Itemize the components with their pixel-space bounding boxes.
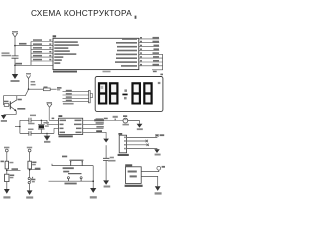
wire rail x106 with C4 — [105, 145, 107, 180]
transistor VT1 — [10, 100, 16, 111]
digit 2 — [109, 82, 119, 104]
wire pin2 nc — [127, 140, 146, 142]
node crystal junction — [41, 120, 42, 121]
GND text — [11, 80, 20, 82]
R4 label — [1, 161, 4, 163]
GND net label — [16, 63, 23, 65]
display text below bus — [63, 103, 74, 105]
display connector bar — [88, 91, 90, 103]
wire base rail — [2, 96, 4, 105]
node loop junction — [19, 126, 20, 127]
wire VCC — [15, 45, 31, 47]
wire base — [9, 104, 11, 106]
no-connect X pin3 — [147, 144, 149, 146]
U1 left pin name texts — [54, 41, 79, 64]
wire to ground B — [29, 184, 31, 191]
switch SB box A — [5, 174, 9, 181]
wire stub B — [30, 169, 41, 171]
display 4-wire bus: VCC CLK DIO GND — [63, 92, 90, 102]
left stub net labels — [33, 39, 51, 60]
wire collector net — [3, 89, 28, 95]
digit 4 — [143, 82, 153, 104]
node junction B — [29, 169, 31, 171]
header P1 designator — [118, 133, 122, 135]
U2 right pin names — [74, 120, 82, 134]
node junction A — [6, 170, 8, 172]
SB1 designator — [62, 156, 67, 158]
resistor R2 — [4, 104, 9, 107]
R3 label — [44, 87, 48, 88]
C1 label — [2, 52, 10, 54]
P1 label — [153, 71, 157, 73]
display part label — [94, 119, 104, 121]
wire loop top — [20, 120, 47, 124]
resistor R4 — [5, 161, 9, 169]
+5V label — [4, 147, 9, 149]
GND text — [1, 120, 7, 122]
+5V label — [26, 73, 31, 75]
wire emitter to ground — [4, 111, 17, 114]
VT1 part label — [17, 108, 25, 110]
colon — [122, 94, 127, 96]
+5V symbol header — [155, 135, 159, 137]
C2 value — [28, 123, 34, 125]
wire collector up — [16, 96, 18, 100]
R2 label — [4, 101, 9, 103]
svg-text:СХЕМА КОНСТРУКТОРА: СХЕМА КОНСТРУКТОРА — [31, 8, 132, 18]
crystal ZQ1 — [40, 120, 42, 133]
display module HG1 box — [95, 77, 163, 112]
R5 label — [32, 162, 36, 164]
C2 label — [30, 115, 36, 117]
stray mark — [135, 16, 137, 19]
GND text — [26, 196, 33, 198]
ground symbol crystal — [44, 133, 49, 140]
wire stub pin rows left of U1 — [31, 42, 53, 62]
+5V circle USB — [157, 166, 161, 170]
pushbutton SB1 — [71, 161, 83, 165]
GND text — [155, 154, 161, 156]
buzzer BF1 — [123, 118, 128, 123]
small label below box right — [103, 71, 111, 73]
ground symbol U2 gnd stub — [103, 139, 109, 143]
header P1 box — [119, 135, 126, 153]
VBUS pin name — [128, 171, 137, 173]
ground symbol buttons — [90, 188, 96, 193]
GND text — [137, 128, 143, 130]
+5V fork feeding R3 chain — [26, 75, 30, 89]
wire GND — [15, 64, 53, 66]
ground symbol buzzer — [137, 124, 143, 128]
VCC net label — [19, 43, 27, 45]
wire pin1 to +5V — [127, 135, 157, 137]
wire to R4 — [6, 152, 8, 161]
wire right bus to P1 — [152, 54, 163, 70]
BF1 designator — [123, 115, 127, 117]
right stub wires of U1 — [139, 39, 163, 66]
wire from R3 — [50, 88, 56, 90]
pin numbers — [124, 137, 126, 150]
crystal loop left vertical — [19, 120, 21, 133]
capacitor C1 — [12, 56, 19, 58]
pullup A +5V circle — [5, 149, 8, 152]
capacitor C4 — [103, 158, 109, 160]
pullup B +5V circle — [28, 149, 31, 152]
display top pin mark — [160, 74, 163, 76]
U2 part label DS1302 — [59, 135, 73, 137]
U1 part label below — [53, 71, 77, 73]
ground symbol USB — [155, 186, 161, 191]
wire pin3 nc — [127, 144, 147, 146]
node junction buttons — [92, 180, 94, 182]
U2 stub net labels — [96, 118, 108, 128]
emitter arrowhead — [14, 109, 16, 111]
RTC U2 box — [59, 118, 83, 134]
connector bracket — [90, 94, 92, 98]
GND text — [104, 186, 111, 188]
net label below button1 — [63, 167, 74, 169]
pushbutton SB2 — [63, 171, 69, 173]
capacitor C2 — [29, 118, 31, 123]
ground symbol left — [12, 74, 18, 79]
ground symbol A — [4, 189, 10, 194]
node GND junction — [14, 65, 16, 67]
wire to ground A — [6, 182, 8, 189]
capacitor C3 — [29, 131, 31, 136]
net label A — [12, 168, 19, 170]
wire to R5 — [29, 152, 31, 161]
U2 left pin names — [60, 120, 67, 134]
R3 value labels — [31, 81, 35, 83]
node junction R3 chain — [28, 88, 30, 90]
net label B — [35, 168, 41, 170]
wire right vertical to ground — [92, 166, 94, 188]
U1 designator — [53, 35, 57, 37]
SA1 label — [32, 179, 36, 181]
pin 1 tick — [115, 119, 116, 121]
U2 right stub wires — [83, 121, 123, 139]
bus net labels — [66, 90, 72, 101]
GND pin name — [130, 175, 137, 177]
ground symbol VT1 — [1, 115, 6, 119]
digit 3 — [131, 82, 141, 104]
GND text — [155, 192, 162, 194]
wire pin4 to ground — [127, 148, 157, 151]
wire VBUS to +5V — [141, 170, 159, 171]
GND text — [3, 196, 10, 198]
U2 left pin stubs — [47, 108, 59, 134]
ground symbol B — [27, 190, 33, 195]
C4 label — [110, 157, 114, 159]
wire vertical rail x15 — [14, 37, 16, 74]
resistor R5 — [28, 161, 32, 169]
wire below R5 — [29, 169, 31, 177]
+5V text — [162, 166, 165, 168]
no-connect X pin2 — [146, 140, 148, 142]
+5V label — [12, 31, 18, 33]
+5V label — [27, 147, 32, 149]
C3 label — [28, 129, 33, 131]
MCU U1 box — [53, 38, 139, 69]
switch SA1 — [28, 178, 30, 180]
resistor R3 — [43, 88, 50, 91]
VT1 designator — [18, 99, 22, 101]
power +5V symbol top-left — [12, 33, 18, 37]
USB1 designator — [125, 164, 132, 166]
net label below button2 — [65, 183, 77, 185]
GND text — [44, 141, 50, 143]
node VCC junction — [14, 45, 16, 47]
USB1 box — [125, 167, 141, 184]
wire button1 net — [52, 164, 93, 166]
USB label MICRO-USB — [125, 185, 143, 187]
ground symbol C4 rail — [103, 180, 109, 184]
GND net label dark — [96, 130, 102, 132]
ground symbol header — [154, 149, 159, 153]
wire bus vertical left of U1 — [30, 42, 32, 66]
wire stub into crystal loop — [15, 126, 20, 128]
BF1 part label — [123, 124, 129, 126]
wire GND to ground — [141, 176, 158, 186]
ZQ1 labels — [43, 122, 49, 124]
+5V text — [160, 134, 165, 136]
digit 1 — [98, 82, 107, 104]
U1 right pin name texts — [115, 38, 137, 66]
U2 designator — [59, 115, 63, 117]
wire button2 net — [49, 180, 94, 182]
wire stub A — [7, 169, 21, 171]
BUZ net label — [57, 87, 62, 88]
GND text — [90, 196, 97, 198]
SB label A — [10, 175, 14, 177]
display corner dot — [158, 82, 161, 84]
header label — [118, 154, 129, 156]
wire to R3 — [29, 88, 44, 90]
wire below R4 — [6, 169, 8, 174]
wire buzzer to ground — [128, 121, 140, 124]
right stub pin numbers and net labels — [140, 37, 159, 66]
wire loop bottom — [20, 132, 54, 134]
